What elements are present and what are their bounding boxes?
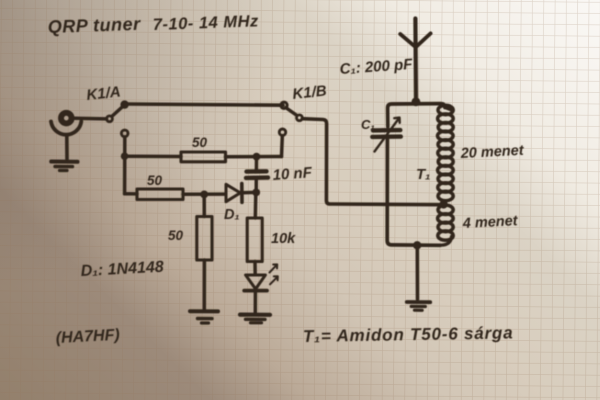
diode D1 triangle <box>226 184 240 201</box>
wire 10nF bottom stub <box>254 178 258 192</box>
node bottom junction <box>413 241 421 249</box>
ground (under T1) <box>407 302 430 310</box>
svg-text:T₁: T₁ <box>416 166 430 183</box>
svg-text:10k: 10k <box>271 231 296 247</box>
resistor R 50 (row1) <box>181 152 226 162</box>
node junction diode/10nF/10k <box>252 189 260 197</box>
coax input connector J1 <box>61 113 72 124</box>
diode D1 cathode bar <box>240 184 244 203</box>
LED light arrow 2 <box>270 276 278 284</box>
svg-text:4 menet: 4 menet <box>461 213 519 232</box>
wire LED to ground <box>254 291 258 313</box>
switch K1/B upper terminal <box>281 102 287 108</box>
LED cathode bar <box>244 289 267 293</box>
switch K1/B lower throw terminal <box>279 129 285 135</box>
svg-text:K1/A: K1/A <box>86 83 122 103</box>
node junction row1 left <box>121 152 129 160</box>
wire 10k top stub <box>254 192 258 218</box>
inductor T1 secondary 4 turns <box>438 205 454 245</box>
wire coax to switch pivot <box>75 117 107 121</box>
wire C1 bottom down <box>387 137 440 245</box>
resistor R 50 (vertical) <box>197 217 212 261</box>
svg-text:50: 50 <box>192 135 208 150</box>
switch K1/B pivot <box>297 115 303 121</box>
node junction row2 / vertical 50 top <box>200 191 208 199</box>
wire bottom junction to ground <box>415 245 419 299</box>
wire coax to ground <box>65 136 69 159</box>
wire row2 left segment <box>125 192 137 196</box>
inductor T1 primary 20 turns <box>438 105 454 200</box>
wire K1/B pivot to T1 tap <box>303 119 446 205</box>
svg-text:K1/B: K1/B <box>292 82 328 102</box>
node: K1/A common terminal <box>120 100 128 108</box>
antenna V left arm <box>400 34 416 47</box>
svg-text:(HA7HF): (HA7HF) <box>55 327 120 347</box>
node: T1 tap junction <box>439 200 447 208</box>
ground (under LED) <box>240 315 270 323</box>
wire: main top wire K1/A to K1/B <box>126 104 283 105</box>
node antenna junction <box>412 97 421 106</box>
wire row1 left segment <box>125 154 181 158</box>
wire: K1/A lower throw down to row1/row2 <box>123 137 127 194</box>
switch K1/A pivot <box>107 116 113 122</box>
ground (under 50) <box>190 311 218 323</box>
LED triangle <box>246 275 266 289</box>
wire up to K1/B lower throw <box>280 137 284 157</box>
svg-text:20 menet: 20 menet <box>459 143 525 162</box>
variable capacitor arrow <box>375 118 400 152</box>
svg-text:50: 50 <box>147 173 163 188</box>
wire 10k to LED <box>253 262 257 275</box>
svg-text:QRP tuner: QRP tuner <box>47 14 141 37</box>
switch K1/B arm <box>286 108 297 116</box>
svg-text:50: 50 <box>168 228 184 243</box>
switch K1/A lower throw terminal <box>121 130 128 137</box>
switch K1/A arm <box>112 106 123 116</box>
ground (coax) <box>51 162 77 171</box>
wire row1 right segment <box>226 155 282 159</box>
svg-text:C₁: C₁ <box>361 117 375 132</box>
wire top T bar <box>388 104 445 127</box>
variable capacitor C1 plates <box>372 130 401 137</box>
antenna mast <box>413 19 418 102</box>
coax shield cup <box>51 122 81 135</box>
node junction row1 / 10nF top <box>253 153 261 161</box>
wire 10nF top stub <box>255 157 259 170</box>
LED light arrow 1 <box>270 264 278 272</box>
wire diode to junction <box>242 191 256 195</box>
antenna V right arm <box>416 33 431 47</box>
svg-text:D₁: D₁ <box>224 207 240 223</box>
wire row2 mid segment <box>183 192 226 196</box>
capacitor 10nF <box>246 171 268 178</box>
resistor R 10k <box>247 218 262 262</box>
svg-text:10 nF: 10 nF <box>272 164 313 184</box>
resistor R 50 (row2) <box>137 189 183 200</box>
svg-text:T₁= Amidon T50-6 sárga: T₁= Amidon T50-6 sárga <box>303 323 514 346</box>
svg-text:7-10- 14 MHz: 7-10- 14 MHz <box>153 12 260 34</box>
wire vertical 50 to ground <box>203 260 207 310</box>
wire vertical 50 top stub <box>202 194 206 216</box>
